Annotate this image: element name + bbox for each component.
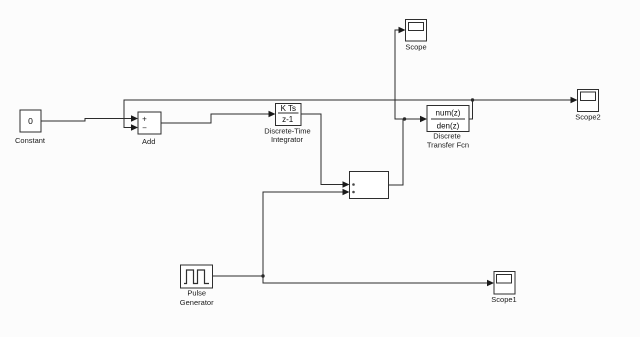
svg-text:Scope2: Scope2 (575, 113, 600, 122)
svg-text:den(z): den(z) (437, 122, 460, 131)
svg-text:Constant: Constant (15, 136, 46, 145)
svg-text:Generator: Generator (180, 298, 214, 307)
svg-text:Transfer Fcn: Transfer Fcn (427, 141, 469, 150)
svg-text:K Ts: K Ts (281, 104, 296, 113)
svg-text:Scope: Scope (405, 43, 426, 52)
svg-text:−: − (142, 124, 147, 133)
svg-text:Add: Add (142, 137, 155, 146)
svg-text:num(z): num(z) (436, 109, 461, 118)
svg-text:z-1: z-1 (282, 115, 294, 124)
svg-text:Scope1: Scope1 (491, 295, 516, 304)
svg-text:Discrete: Discrete (433, 132, 461, 141)
svg-text:Pulse: Pulse (187, 289, 206, 298)
svg-text:Integrator: Integrator (271, 135, 304, 144)
svg-text:0: 0 (28, 116, 33, 126)
svg-text:+: + (142, 115, 147, 124)
